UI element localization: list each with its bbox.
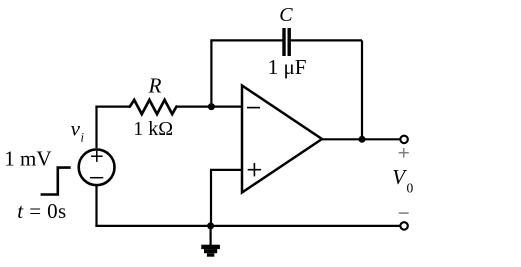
svg-text:1 mV: 1 mV xyxy=(4,147,51,171)
wire: resistor to inverting node xyxy=(176,105,243,107)
step waveform symbol xyxy=(41,168,71,195)
wire: non-inverting riser to ground rail xyxy=(210,170,212,226)
node: ground junction xyxy=(207,222,214,229)
wire: feedback riser right xyxy=(361,40,363,139)
node: output junction xyxy=(359,136,366,143)
wire: source top to input line xyxy=(95,107,97,148)
ground xyxy=(201,245,220,257)
capacitor C xyxy=(282,28,291,56)
wire: capacitor to right riser xyxy=(291,39,362,41)
terminal: output negative xyxy=(400,222,408,230)
wire: top wire to capacitor xyxy=(210,39,282,41)
label + (gray) xyxy=(399,148,409,158)
svg-text:1 μF: 1 μF xyxy=(268,55,307,79)
svg-text:C: C xyxy=(279,4,293,26)
wire: feedback riser left xyxy=(210,40,212,106)
svg-text:R: R xyxy=(148,74,162,98)
terminal: output positive xyxy=(400,136,408,144)
wire: ground stub xyxy=(210,226,212,245)
voltage source Vs xyxy=(79,149,115,185)
wire: non-inverting input horizontal xyxy=(210,169,243,171)
wire: bottom rail xyxy=(95,225,399,227)
wire: input line source to resistor xyxy=(95,105,130,107)
svg-text:vi: vi xyxy=(71,117,85,145)
svg-text:t = 0s: t = 0s xyxy=(17,199,66,223)
wire: op-amp output xyxy=(322,138,400,140)
wire: source bottom xyxy=(95,186,97,227)
resistor R xyxy=(130,100,177,114)
svg-text:1 kΩ: 1 kΩ xyxy=(133,118,173,140)
node: inverting input junction xyxy=(208,103,215,110)
op-amp U1 xyxy=(242,86,322,193)
label - (gray) xyxy=(399,212,409,214)
svg-text:V0: V0 xyxy=(392,165,413,195)
